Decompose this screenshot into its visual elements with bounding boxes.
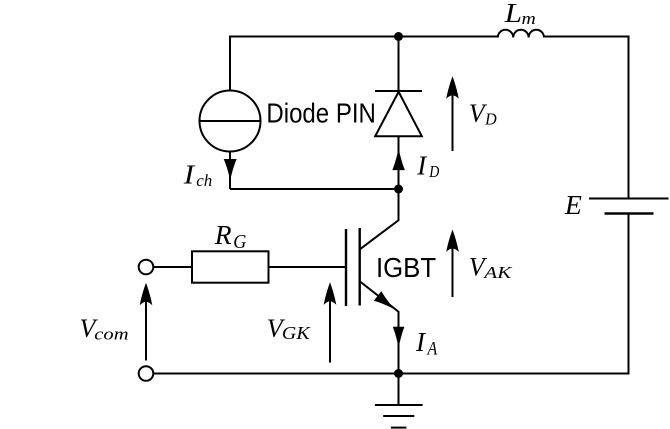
wire top rail left segment <box>230 36 498 38</box>
svg-text:IGBT: IGBT <box>376 252 436 283</box>
voltage arrow VAK <box>452 241 454 297</box>
terminal input top <box>139 260 154 275</box>
battery E positive plate <box>589 198 669 200</box>
terminal input bottom <box>139 366 154 381</box>
svg-text:L: L <box>504 0 522 28</box>
svg-text:m: m <box>522 9 536 27</box>
svg-text:I: I <box>183 160 196 190</box>
inductor Lm coil <box>498 30 544 38</box>
voltage arrow VD <box>452 88 454 151</box>
diode Diode-PIN cathode bar <box>375 90 422 92</box>
svg-text:Diode PIN: Diode PIN <box>266 97 375 129</box>
resistor RG body <box>192 251 269 282</box>
transistor IGBT body bar <box>359 228 361 306</box>
current arrow IA head <box>393 327 405 349</box>
svg-text:R: R <box>214 220 232 250</box>
voltage arrow VGK <box>329 294 331 363</box>
current source Ich output arrow <box>229 152 231 190</box>
wire diode bottom lead <box>398 136 400 189</box>
wire top rail right segment <box>544 36 630 38</box>
svg-text:D: D <box>484 110 497 128</box>
svg-text:ch: ch <box>196 171 212 190</box>
svg-text:I: I <box>416 151 428 181</box>
wire gate lead right <box>269 266 347 268</box>
svg-text:D: D <box>428 163 439 182</box>
svg-text:GK: GK <box>282 324 311 344</box>
current source Ich bar <box>200 120 261 122</box>
svg-text:A: A <box>427 337 438 359</box>
current arrow ID head <box>392 148 405 170</box>
diode Diode-PIN anode triangle <box>375 92 422 136</box>
node Ich junction <box>394 185 403 194</box>
wire right rail lower <box>628 214 630 375</box>
transistor IGBT gate bar <box>345 229 347 306</box>
svg-text:G: G <box>233 231 246 253</box>
svg-text:AK: AK <box>482 264 513 282</box>
wire right rail upper <box>628 36 630 199</box>
transistor IGBT collector lead wire <box>360 189 399 249</box>
transistor IGBT emitter arrow <box>374 291 399 314</box>
battery E negative plate <box>605 212 654 215</box>
wire current source top lead <box>229 36 231 91</box>
voltage arrow Vcom <box>145 296 147 361</box>
wire bottom rail <box>154 373 630 375</box>
svg-text:I: I <box>415 327 427 357</box>
node emitter junction <box>394 369 403 378</box>
svg-text:com: com <box>94 325 128 344</box>
wire Ich horizontal <box>230 188 399 190</box>
ground symbol <box>398 374 400 406</box>
transistor IGBT emitter lead wire <box>360 282 399 374</box>
wire diode top lead <box>398 37 400 92</box>
wire gate lead left <box>154 266 193 268</box>
current source Ich circle <box>200 91 261 152</box>
svg-text:E: E <box>564 190 582 220</box>
node top junction <box>394 32 403 41</box>
